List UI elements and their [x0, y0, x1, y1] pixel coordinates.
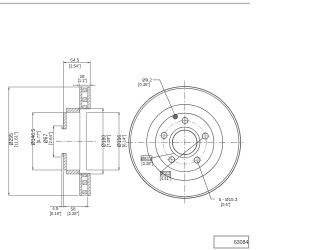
svg-text:[2.54"]: [2.54"]	[69, 64, 81, 69]
svg-text:[0.6"]: [0.6"]	[221, 202, 230, 207]
svg-text:[6.14"]: [6.14"]	[122, 135, 127, 148]
svg-text:[11.61"]: [11.61"]	[14, 132, 19, 147]
svg-text:64.5: 64.5	[70, 57, 79, 62]
svg-text:[2.28"]: [2.28"]	[67, 211, 79, 216]
svg-text:[1.1"]: [1.1"]	[78, 78, 87, 83]
svg-text:[4.41"]: [4.41"]	[160, 176, 172, 181]
svg-text:[0.18"]: [0.18"]	[50, 211, 62, 216]
svg-text:[0.36"]: [0.36"]	[138, 82, 150, 87]
svg-text:[2.64"]: [2.64"]	[48, 132, 53, 145]
svg-text:[5.77"]: [5.77"]	[36, 131, 41, 144]
svg-text:63084: 63084	[234, 240, 249, 246]
svg-text:[3.28"]: [3.28"]	[141, 161, 153, 166]
svg-text:[7.09"]: [7.09"]	[106, 135, 111, 148]
